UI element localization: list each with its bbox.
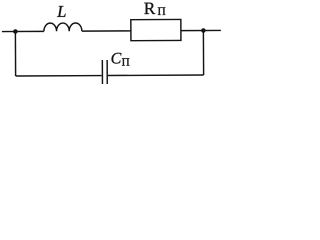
capacitor label subscript П xyxy=(122,58,129,65)
wire: right vertical branch xyxy=(202,31,204,75)
resistor label subscript П xyxy=(158,7,166,15)
inductor L xyxy=(44,23,82,31)
wire: resistor to right edge xyxy=(181,29,221,31)
inductor value label L xyxy=(57,6,66,17)
node: right junction dot xyxy=(201,28,206,33)
resistor value label R xyxy=(144,3,155,14)
resistor RП body xyxy=(131,19,181,40)
wire: left vertical branch xyxy=(14,32,16,76)
capacitor CП plates xyxy=(102,60,107,84)
wire: top-left segment xyxy=(2,30,44,32)
node: left junction dot xyxy=(13,29,18,34)
wire: bottom-right segment xyxy=(108,74,204,77)
wire: inductor to resistor xyxy=(82,30,131,32)
capacitor value label C xyxy=(111,53,121,64)
wire: bottom-left segment xyxy=(16,75,102,77)
